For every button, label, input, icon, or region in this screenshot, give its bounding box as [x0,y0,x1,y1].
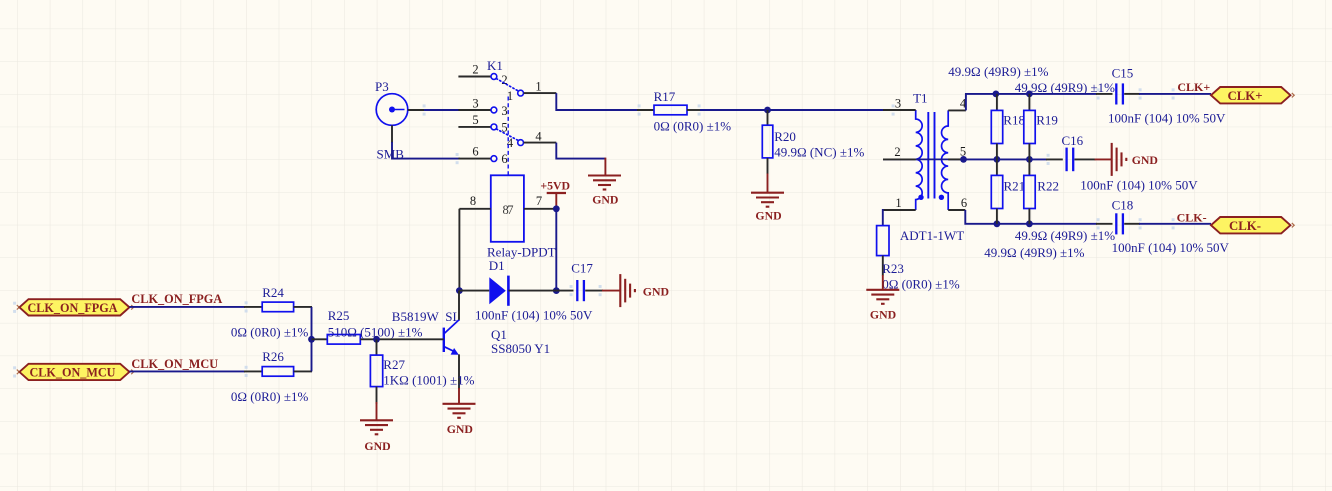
resistor R20 [762,110,773,174]
wire R17 to T1 pin3 [700,109,884,111]
K1 pin 5 [458,113,507,135]
svg-text:100nF (104) 10% 50V: 100nF (104) 10% 50V [1108,111,1226,126]
ground GND at Q1 emitter [443,388,476,436]
svg-text:6: 6 [472,145,478,159]
wire T1 pin1 to R23 [882,209,884,226]
wire C15 to port CLK+ [1139,93,1211,95]
svg-text:GND: GND [447,422,473,436]
svg-text:P3: P3 [375,79,389,94]
resistor R17 [637,105,701,115]
port CLK_ON_FPGA [13,299,134,315]
svg-text:R18: R18 [1003,112,1025,127]
junction node top rail R19 [1026,91,1033,98]
T1 pin 1 [883,196,916,210]
svg-text:GND: GND [592,193,618,207]
wire P3 to K1 pin6 [392,142,460,159]
K1 coil pin 8 [459,194,490,209]
junction node R25 input [308,336,315,343]
ground GND at R20 [751,174,784,223]
K1 pin 3 [458,96,507,117]
connection marks [245,88,1175,377]
svg-text:8: 8 [470,194,476,208]
svg-text:CLK-: CLK- [1177,211,1207,225]
svg-text:1: 1 [895,196,901,210]
svg-text:Q1: Q1 [491,327,507,342]
svg-text:49.9Ω (49R9) ±1%: 49.9Ω (49R9) ±1% [984,245,1084,260]
svg-text:K1: K1 [487,58,503,73]
svg-text:CLK_ON_FPGA: CLK_ON_FPGA [27,301,117,315]
resistor R21 [991,159,1002,223]
junction node top rail R18 [993,91,1000,98]
ground GND at R27 [360,402,393,453]
svg-text:C18: C18 [1112,198,1134,213]
resistor R27 [370,339,382,404]
resistor R24 [244,302,312,312]
svg-text:49.9Ω (NC) ±1%: 49.9Ω (NC) ±1% [774,144,864,159]
junction node mid rail R18 [994,156,1001,163]
diode D1 [459,276,556,306]
svg-text:49.9Ω (49R9) ±1%: 49.9Ω (49R9) ±1% [1015,80,1115,95]
svg-text:3: 3 [472,96,478,110]
svg-text:R24: R24 [262,285,284,300]
svg-text:C15: C15 [1112,66,1134,81]
svg-text:SS8050 Y1: SS8050 Y1 [491,341,550,356]
wire pin7 down to D1 cathode [555,209,557,291]
capacitor C15 [1096,83,1140,104]
wire CLK_ON_FPGA to R24 [129,306,245,308]
svg-text:R19: R19 [1036,112,1058,127]
svg-text:GND: GND [755,209,781,223]
svg-text:R17: R17 [654,89,676,104]
K1 pin 4 [507,129,556,150]
junction node bottom rail R21 [994,220,1001,227]
wire R25 to Q1 base [377,338,444,340]
K1 coil pin 7 [524,194,556,209]
transformer T1 core [928,112,934,199]
port CLK_ON_MCU [13,364,134,380]
svg-text:1KΩ (1001) ±1%: 1KΩ (1001) ±1% [383,372,474,387]
junction node R20 tap [764,107,771,114]
wire T1 pin5 to C16 [964,158,1047,160]
svg-text:100nF (104) 10% 50V: 100nF (104) 10% 50V [1080,178,1198,193]
svg-text:R23: R23 [882,261,904,276]
svg-text:0Ω (0R0) ±1%: 0Ω (0R0) ±1% [231,324,309,339]
svg-text:CLK-: CLK- [1229,219,1261,233]
svg-text:T1: T1 [913,90,927,105]
svg-text:CLK+: CLK+ [1177,80,1210,94]
capacitor C16 [1046,148,1096,172]
svg-text:49.9Ω (49R9) ±1%: 49.9Ω (49R9) ±1% [1015,228,1115,243]
K1 pin 1 [507,80,556,104]
wire K1 pin4 to GND [556,143,605,159]
T1 pin 4 [948,96,967,110]
junction node D1 cathode [553,287,560,294]
transformer T1 polarity dot left [918,195,923,200]
svg-text:2: 2 [472,63,478,77]
svg-text:C17: C17 [571,261,593,276]
resistor R26 [244,367,312,377]
svg-text:87: 87 [503,203,514,217]
wire P3 to K1 pin3 [424,109,459,111]
svg-text:+5VD: +5VD [540,179,570,193]
capacitor C17 [556,280,603,301]
svg-text:1: 1 [535,80,541,94]
port CLK- [1211,217,1294,233]
ground GND at K1 pin4 [588,158,621,207]
svg-text:GND: GND [870,308,896,322]
K1 armature 2-1 [496,79,518,91]
svg-text:5: 5 [472,113,478,127]
transformer T1 secondary winding [942,110,949,210]
svg-text:R21: R21 [1004,179,1026,194]
ground GND at C16 (rotated) [1095,143,1158,176]
transformer T1 primary winding [916,110,922,210]
junction node R27 tap [373,336,380,343]
svg-text:3: 3 [895,96,901,110]
svg-text:R22: R22 [1037,179,1059,194]
K1 armature 5-4 [496,129,518,141]
svg-text:CLK_ON_FPGA: CLK_ON_FPGA [131,292,222,306]
svg-text:6: 6 [501,152,507,166]
junction node D1 anode [456,287,463,294]
svg-text:2: 2 [894,145,900,159]
wire pin8 down to D1 anode [458,209,460,291]
wire T1 pin4 to top rail [966,94,1097,111]
svg-text:4: 4 [535,129,542,143]
svg-text:R25: R25 [328,308,350,323]
K1 linkage dashed line [507,97,509,175]
svg-text:D1: D1 [489,258,505,273]
svg-text:3: 3 [501,104,507,118]
svg-text:0Ω (0R0) ±1%: 0Ω (0R0) ±1% [231,389,309,404]
T1 pin 3 [883,96,916,110]
K1 pin 6 [458,145,507,167]
svg-text:GND: GND [364,439,390,453]
svg-text:C16: C16 [1062,133,1084,148]
transformer T1 polarity dot right [939,195,944,200]
junction node mid rail R19 [1026,156,1033,163]
junction node bottom rail R22 [1026,220,1033,227]
junction node pin5 [960,156,967,163]
wire CLK_ON_MCU to R26 [129,370,245,372]
T1 pin 2 and pin 5 crossing line [883,144,966,159]
relay coil box K1 [491,175,524,242]
svg-text:7: 7 [536,194,542,208]
svg-text:GND: GND [643,284,669,298]
T1 pin 6 [948,196,967,210]
svg-text:0Ω (0R0) ±1%: 0Ω (0R0) ±1% [654,118,732,133]
resistor R22 [1024,159,1035,223]
power +5VD [540,179,570,208]
resistor R25 [312,335,378,345]
svg-text:CLK_ON_MCU: CLK_ON_MCU [131,357,218,371]
svg-text:49.9Ω (49R9) ±1%: 49.9Ω (49R9) ±1% [948,64,1048,79]
svg-text:B5819W SL: B5819W SL [392,309,461,324]
ground GND at R23 [866,275,899,322]
svg-text:100nF (104) 10% 50V: 100nF (104) 10% 50V [475,308,593,323]
resistor R18 [991,94,1002,159]
port CLK+ [1211,87,1294,103]
transistor Q1 [444,291,459,389]
svg-text:R20: R20 [774,129,796,144]
svg-text:R27: R27 [383,357,405,372]
resistor R19 [1024,94,1035,159]
svg-text:CLK_ON_MCU: CLK_ON_MCU [30,366,116,380]
resistor R23 [877,226,889,276]
svg-text:ADT1-1WT: ADT1-1WT [900,228,964,243]
svg-text:6: 6 [961,196,967,210]
wire K1 pin1 to R17 [556,93,637,110]
svg-text:100nF (104) 10% 50V: 100nF (104) 10% 50V [1112,240,1230,255]
wire T1 pin6 to bottom rail [965,210,1097,224]
svg-text:CLK+: CLK+ [1227,89,1262,103]
junction pin7 +5VD [553,205,560,212]
svg-text:R26: R26 [262,349,284,364]
capacitor C18 [1096,213,1140,234]
wire R24 R26 to R25 junction [311,307,313,372]
K1 pin 2 [458,63,507,88]
ground GND at C17 (rotated) [602,274,669,307]
wire C18 to port CLK- [1139,223,1211,225]
connector P3 [376,94,425,143]
svg-text:GND: GND [1132,153,1158,167]
svg-text:1: 1 [507,89,513,103]
